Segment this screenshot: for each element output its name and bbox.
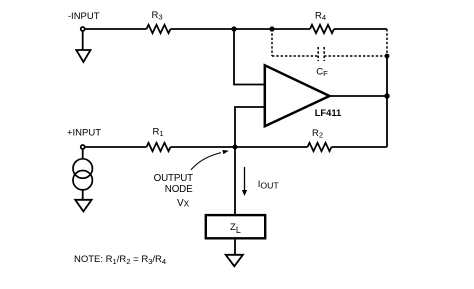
capacitor CF plates: [318, 47, 324, 61]
svg-text:R2: R2: [312, 128, 323, 140]
terminal -INPUT: [81, 27, 85, 31]
wire right rail: [386, 56, 388, 147]
svg-text:R3: R3: [152, 10, 163, 22]
wire bottom rail left segment: [85, 146, 147, 148]
svg-text:-INPUT: -INPUT: [68, 11, 100, 22]
capacitor CF dashed branch left: [272, 29, 387, 56]
wire top rail middle segment: [171, 28, 311, 30]
terminal +INPUT: [81, 145, 85, 149]
resistor R4: [310, 25, 334, 33]
wire +INPUT to current source: [82, 149, 84, 159]
svg-text:VX: VX: [177, 198, 190, 209]
svg-text:R1: R1: [153, 126, 164, 138]
wire bottom rail right segment: [332, 146, 388, 148]
node junction dashed branch start: [269, 26, 274, 31]
wire curved pointer arrow to output node: [191, 153, 221, 170]
ground (at -INPUT): [76, 50, 90, 62]
wire bottom rail middle segment: [171, 146, 308, 148]
node OUTPUT NODE junction: [233, 145, 238, 150]
load ZL: [206, 215, 265, 238]
arrow IOUT: [244, 167, 246, 191]
svg-text:LF411: LF411: [315, 107, 342, 118]
op-amp U1 LF411: [265, 65, 330, 126]
svg-text:ZL: ZL: [230, 222, 241, 235]
wire -INPUT to ground: [82, 31, 84, 50]
node junction output: [384, 93, 389, 98]
resistor R1: [147, 143, 171, 151]
resistor R3: [147, 25, 171, 33]
resistor R2: [308, 143, 332, 151]
wire output node to ZL: [234, 147, 236, 215]
svg-text:NOTE: R1/R2 = R3/R4: NOTE: R1/R2 = R3/R4: [74, 254, 166, 266]
wire op-amp output: [330, 95, 388, 97]
node junction R3/R4 to inverting input: [231, 26, 236, 31]
svg-text:R4: R4: [315, 10, 326, 22]
svg-text:OUTPUT: OUTPUT: [154, 173, 194, 184]
ground (below current source): [75, 200, 91, 212]
wire current source to ground: [82, 190, 84, 200]
current source I1: [73, 159, 92, 190]
wire ZL to ground: [234, 239, 236, 255]
node junction CF right: [385, 54, 390, 59]
wire inverting input: [234, 29, 265, 85]
wire non-inverting input: [235, 107, 265, 147]
svg-text:IOUT: IOUT: [258, 179, 280, 191]
svg-text:CF: CF: [316, 67, 328, 79]
svg-text:NODE: NODE: [165, 184, 193, 195]
ground (below ZL): [226, 255, 243, 266]
svg-text:+INPUT: +INPUT: [67, 127, 101, 138]
wire top rail right segment: [334, 28, 387, 30]
wire top rail left segment: [85, 28, 147, 30]
